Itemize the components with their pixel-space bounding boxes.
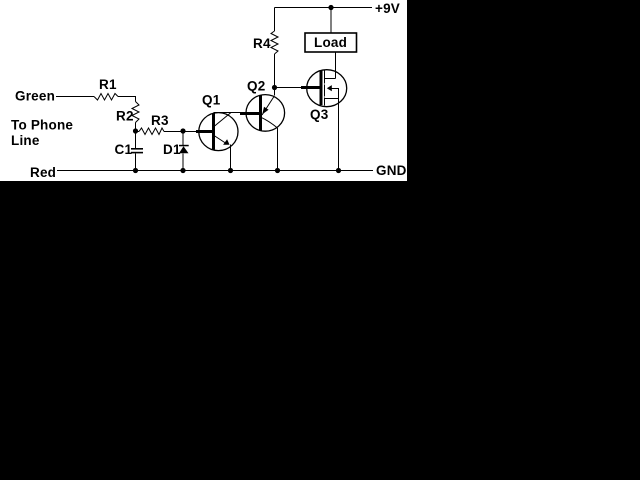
svg-text:R3: R3 — [151, 113, 169, 128]
svg-text:R4: R4 — [253, 36, 271, 51]
Q1 collector wire to Q2 — [214, 112, 241, 114]
Q1 emitter diagonal — [214, 136, 227, 145]
wire: R2 to node A — [135, 123, 137, 132]
svg-text:+9V: +9V — [375, 1, 400, 16]
wire: +9V top rail — [275, 7, 373, 9]
Q2 emitter arrowhead (points into bar) — [262, 107, 268, 115]
Q3 gate bar — [320, 70, 323, 105]
Q2 emitter diagonal — [262, 97, 274, 116]
wire: Green lead to R1 — [56, 96, 94, 98]
wire: Q3 source to GND rail — [338, 99, 340, 171]
Q2 base bar — [259, 96, 262, 131]
Q2 base lead (thick) — [240, 112, 259, 115]
resistor R2 — [132, 102, 139, 123]
svg-text:R1: R1 — [99, 77, 117, 92]
wire: Q2 collector to GND rail — [277, 128, 279, 171]
transistor Q2 (PNP) — [246, 95, 285, 132]
svg-text:C1: C1 — [115, 142, 133, 157]
transistor Q3 (N-MOSFET) — [307, 70, 347, 107]
junction dot D1/GND rail — [180, 168, 185, 173]
junction dot C1/GND rail — [133, 168, 138, 173]
Q3 body stub — [332, 89, 339, 99]
svg-text:Line: Line — [11, 133, 40, 148]
Q3 gate lead thin — [275, 87, 302, 89]
wire: Load box to Q3 drain — [335, 52, 337, 79]
svg-text:Red: Red — [30, 165, 56, 180]
diode D1 — [182, 132, 184, 147]
Q3 drain stub — [325, 78, 336, 80]
wire: Q1 emitter to GND rail — [230, 145, 232, 171]
svg-text:Q3: Q3 — [310, 107, 329, 122]
svg-text:GND: GND — [376, 163, 407, 178]
Q3 body arrowhead — [327, 85, 332, 91]
junction dot Q2 collector/GND rail — [275, 168, 280, 173]
wire: Q2 emitter up to node C — [274, 88, 276, 96]
svg-text:Green: Green — [15, 89, 55, 104]
Load box — [305, 33, 357, 52]
wire: R1 to R2 corner — [118, 97, 136, 102]
junction dot Q3 source/GND rail — [336, 168, 341, 173]
junction node B (R3/D1/Q1 base) — [180, 128, 185, 133]
Q3 channel bar — [324, 70, 326, 84]
junction node C (R4/Q2 emitter/Q3 gate) — [272, 85, 277, 90]
wire: GND bottom rail — [57, 170, 373, 172]
svg-text:Q2: Q2 — [247, 79, 265, 94]
Q3 source stub — [325, 98, 339, 100]
wire: R3 to node B — [164, 131, 196, 133]
Q3 gate lead thick — [301, 86, 320, 89]
resistor R3 — [139, 128, 164, 135]
Q1 base bar — [212, 113, 215, 150]
svg-text:D1: D1 — [163, 142, 181, 157]
svg-text:Q1: Q1 — [202, 93, 221, 108]
Q1 collector diagonal — [214, 113, 231, 127]
resistor R4 — [274, 54, 276, 88]
transistor Q1 (NPN) — [199, 113, 238, 151]
capacitor C1 — [135, 132, 137, 149]
wire: Q1 base lead (thick) — [196, 130, 212, 133]
junction dot Q1 emitter/GND rail — [228, 168, 233, 173]
wire: node A to R3 — [136, 131, 140, 133]
junction node A (R2/R3/C1) — [133, 128, 138, 133]
svg-text:To Phone: To Phone — [11, 118, 73, 133]
wire: top rail to Load box — [330, 8, 332, 34]
junction dot top rail/Load — [328, 5, 333, 10]
Q2 collector curve — [261, 117, 278, 128]
resistor R1 — [94, 94, 118, 101]
svg-text:R2: R2 — [116, 109, 134, 124]
svg-text:Load: Load — [314, 35, 347, 50]
Q1 emitter arrowhead — [223, 139, 229, 145]
